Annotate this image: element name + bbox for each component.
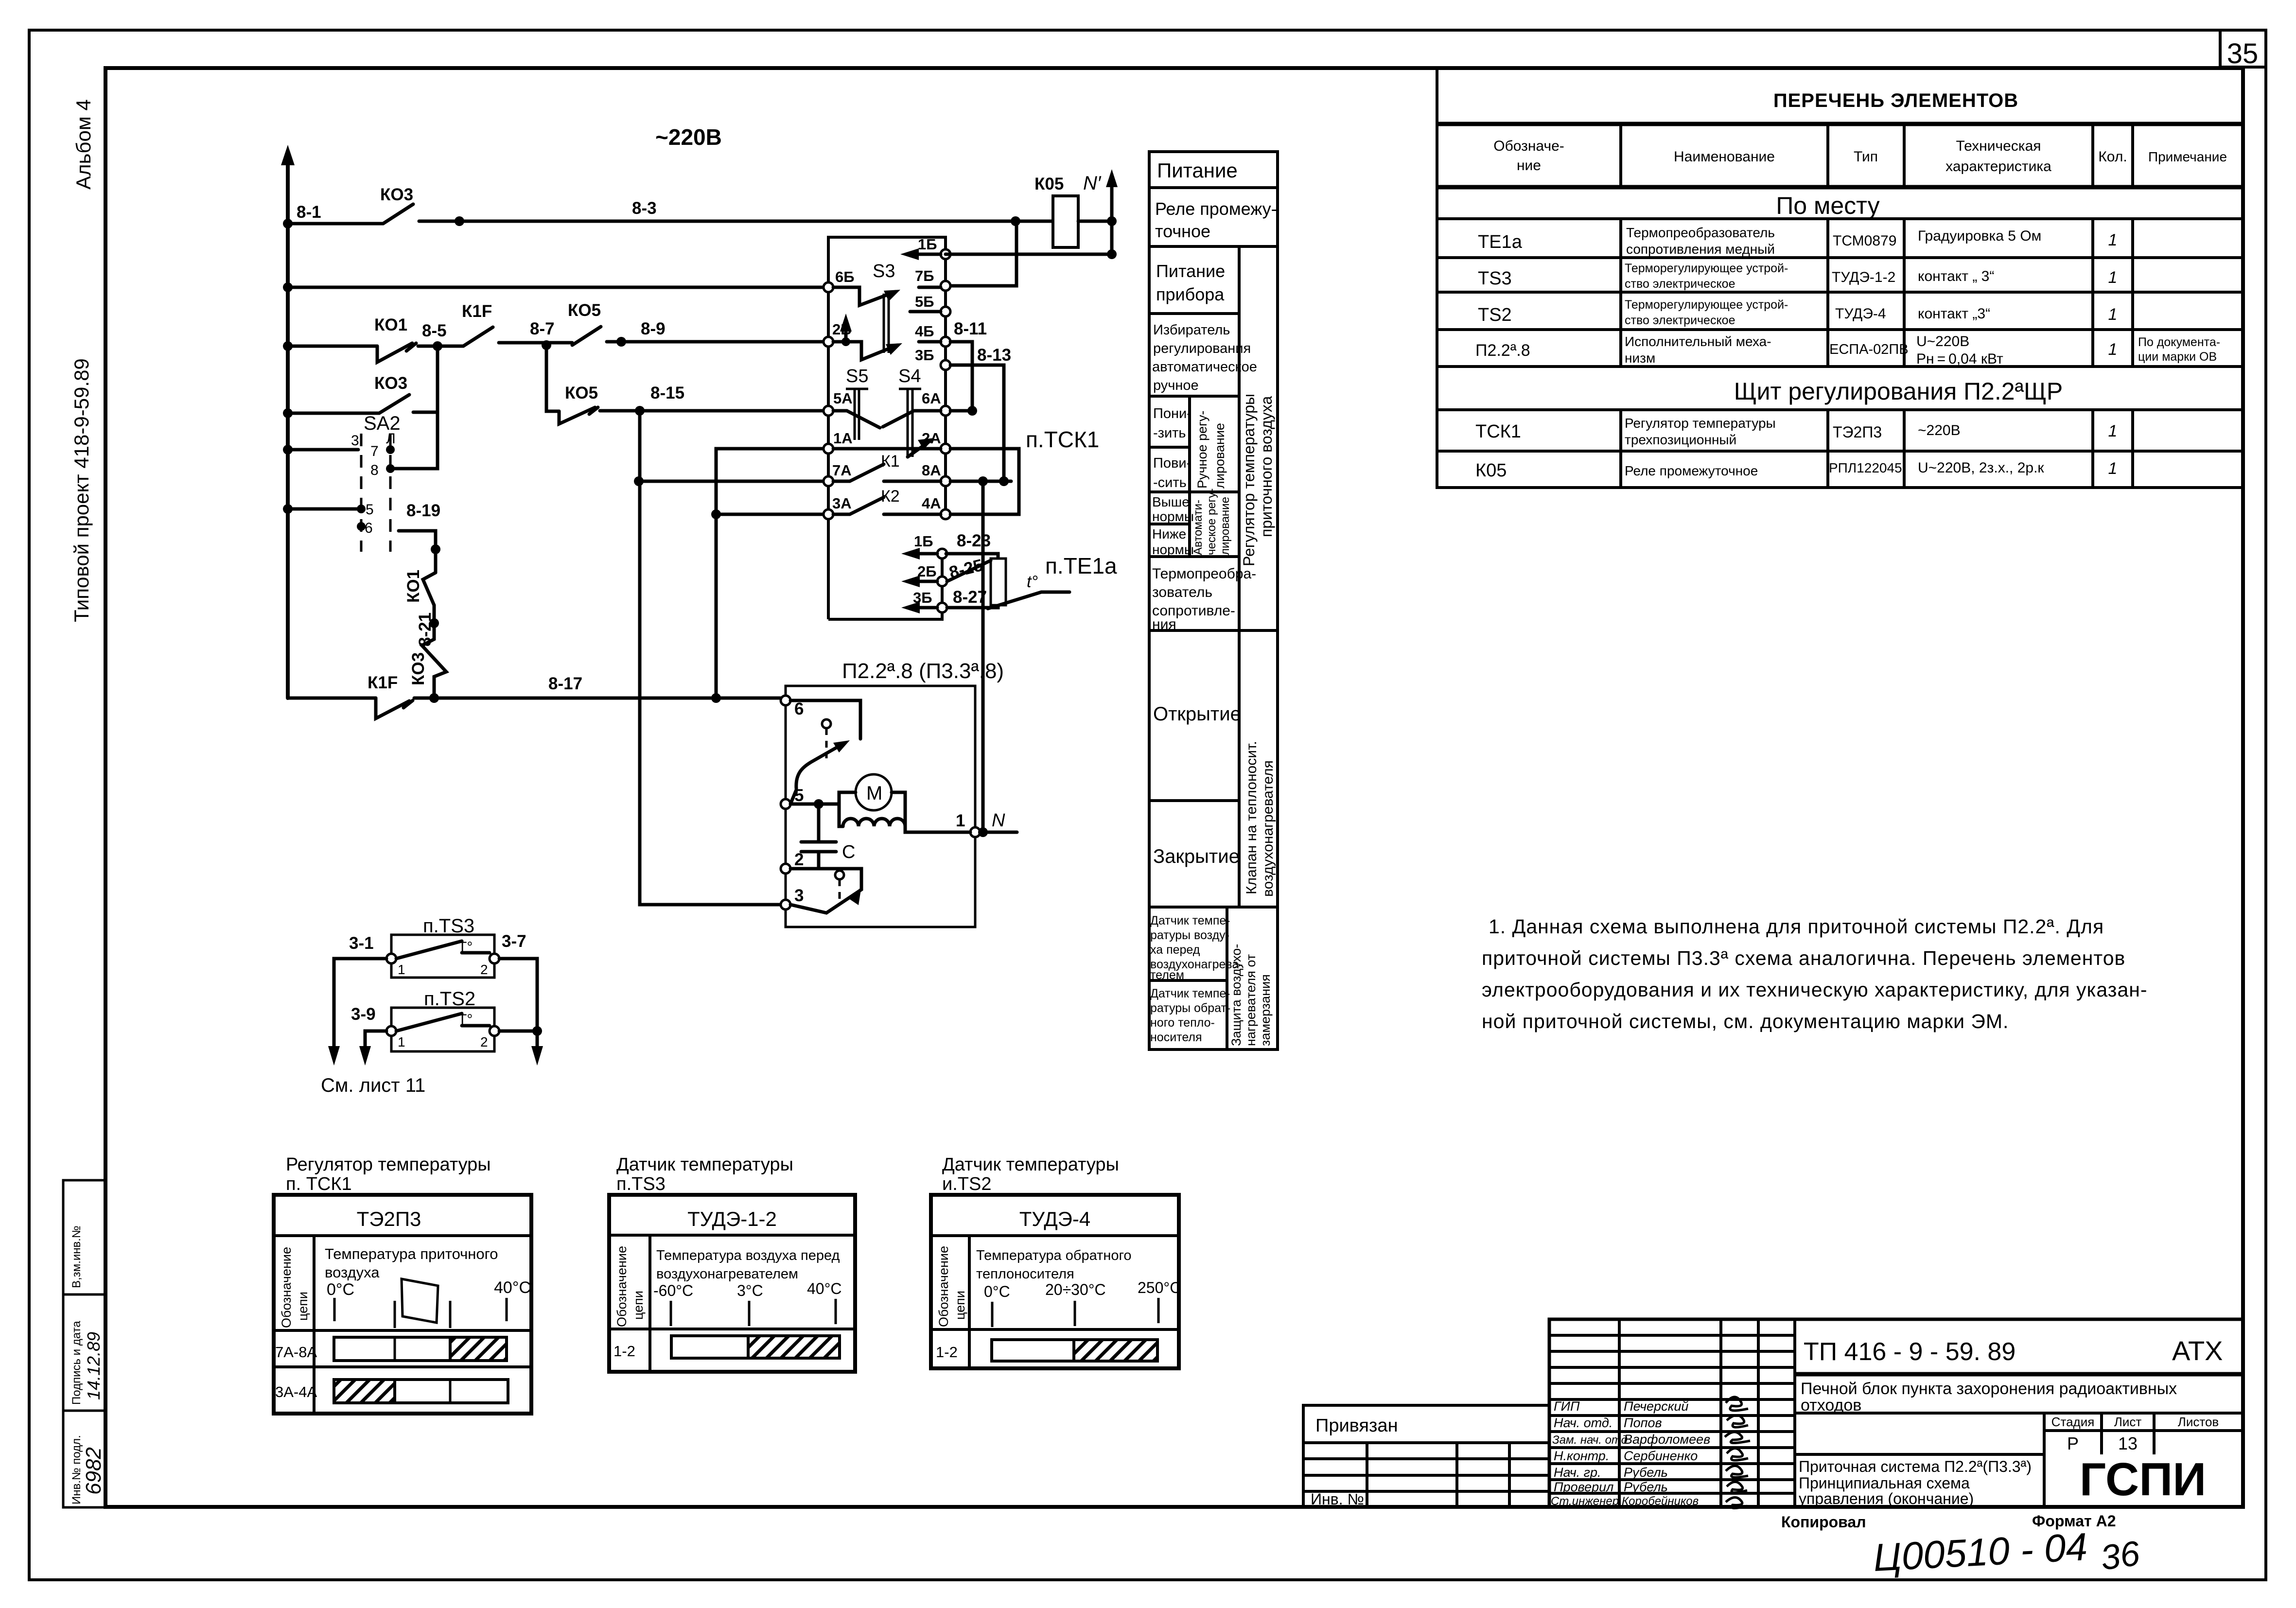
title block stage/sheet	[2051, 1415, 2219, 1453]
function cell Открытие	[1153, 703, 1241, 725]
svg-text:Клапан на теплоносит.: Клапан на теплоносит.	[1244, 741, 1260, 894]
contact К05 aux	[568, 301, 601, 345]
svg-text:ческое регу-: ческое регу-	[1205, 489, 1218, 555]
table title ПЕРЕЧЕНЬ ЭЛЕМЕНТОВ	[1773, 90, 2018, 111]
actuator box	[786, 686, 975, 927]
svg-text:Нач. отд.: Нач. отд.	[1554, 1416, 1612, 1430]
actuator terminal 3	[781, 886, 804, 909]
svg-text:Обозначение: Обозначение	[614, 1246, 629, 1327]
svg-text:носителя: носителя	[1150, 1031, 1202, 1044]
svg-text:Датчик температуры: Датчик температуры	[942, 1154, 1119, 1175]
svg-text:1А: 1А	[833, 430, 853, 447]
section row Щит регулирования	[1734, 378, 2063, 405]
wire 7А link	[639, 480, 826, 483]
switch S3 pole 1	[833, 261, 941, 305]
title block doc number	[1804, 1335, 2223, 1366]
svg-text:5Б: 5Б	[915, 293, 934, 310]
svg-text:К1F: К1F	[368, 673, 398, 692]
wire 7Б to 8-3 corner	[947, 221, 1017, 286]
svg-text:п.TS2: п.TS2	[424, 988, 475, 1010]
svg-text:3-9: 3-9	[351, 1005, 376, 1024]
svg-text:3-1: 3-1	[349, 934, 374, 953]
svg-text:Рубель: Рубель	[1624, 1465, 1668, 1480]
row ТЕ1а	[1478, 225, 2117, 257]
svg-text:ТСМ0879: ТСМ0879	[1833, 233, 1896, 249]
svg-text:контакт „ 3“: контакт „ 3“	[1918, 268, 1994, 284]
switch SA2 (selector, dashed linkage)	[351, 413, 401, 552]
svg-text:7А: 7А	[832, 462, 852, 479]
svg-text:40°С: 40°С	[807, 1280, 842, 1297]
svg-text:ГСПИ: ГСПИ	[2080, 1453, 2206, 1505]
svg-text:ТУДЭ-1-2: ТУДЭ-1-2	[687, 1207, 777, 1230]
svg-text:П2.2ª.8: П2.2ª.8	[1475, 341, 1530, 360]
node N' riser with arrow	[1083, 169, 1118, 259]
svg-text:электрооборудования и их техни: электрооборудования и их техническую хар…	[1482, 979, 2148, 1001]
svg-text:нормы: нормы	[1152, 542, 1194, 557]
header Техническая характеристика	[1945, 138, 2051, 175]
svg-text:4А: 4А	[922, 495, 941, 512]
svg-text:КО3: КО3	[374, 374, 407, 393]
terminal 3Б	[915, 347, 950, 370]
svg-text:Инв.№ подл.: Инв.№ подл.	[70, 1435, 83, 1504]
svg-text:Кол.: Кол.	[2098, 149, 2127, 165]
svg-text:Питание: Питание	[1157, 159, 1238, 182]
svg-text:3Б: 3Б	[913, 589, 932, 606]
svg-text:Листов: Листов	[2178, 1415, 2219, 1429]
svg-text:3: 3	[351, 433, 359, 449]
note paragraph	[1482, 915, 2148, 1032]
svg-text:Варфоломеев: Варфоломеев	[1624, 1432, 1710, 1447]
wire 8-9 to terminal 2Б	[607, 319, 826, 347]
switch S4	[883, 366, 941, 457]
svg-text:Пови-: Пови-	[1153, 455, 1191, 471]
svg-text:ГИП: ГИП	[1554, 1399, 1580, 1414]
svg-text:Т°: Т°	[458, 1012, 473, 1028]
wire rung 7Б link (6Б bus wire)	[283, 282, 826, 292]
svg-text:К05: К05	[1475, 460, 1507, 481]
svg-text:36: 36	[2098, 1534, 2142, 1578]
svg-text:Типовой проект 418-9-59.89: Типовой проект 418-9-59.89	[70, 358, 93, 622]
svg-text:Температура воздуха перед: Температура воздуха перед	[656, 1248, 840, 1263]
actuator winding (inductor)	[839, 804, 970, 832]
svg-text:Щит регулирования П2.2ªЩР: Щит регулирования П2.2ªЩР	[1734, 378, 2063, 405]
svg-text:3: 3	[794, 886, 804, 905]
svg-text:3Б: 3Б	[915, 347, 934, 364]
thermostat block п.TS2	[386, 988, 499, 1051]
wire 3-9	[351, 1005, 386, 1066]
svg-text:8-11: 8-11	[954, 319, 987, 338]
svg-text:ство электрическое: ство электрическое	[1625, 314, 1735, 327]
function cell Питание прибора	[1156, 261, 1225, 304]
svg-text:1: 1	[2108, 340, 2118, 359]
wire 8-15 riser to 7А and actuator pin3	[634, 411, 780, 905]
scale table ТЭ2П3 row 7А-8А	[275, 1337, 507, 1361]
svg-text:ТСК1: ТСК1	[1475, 421, 1521, 442]
header Кол.	[2098, 149, 2127, 165]
svg-text:7: 7	[370, 443, 379, 459]
svg-text:Датчик темпе-: Датчик темпе-	[1150, 987, 1230, 1000]
svg-text:-сить: -сить	[1153, 475, 1187, 490]
contact К03 chain (vertical)	[409, 628, 446, 698]
stub 5Б	[910, 310, 941, 314]
wire coil to N node	[1078, 220, 1112, 223]
svg-text:6: 6	[794, 699, 804, 718]
svg-text:Температура приточного: Температура приточного	[325, 1245, 498, 1262]
svg-text:По документа-: По документа-	[2138, 335, 2220, 349]
svg-text:ТУДЭ-1-2: ТУДЭ-1-2	[1832, 269, 1895, 285]
header Тип	[1854, 149, 1878, 165]
terminal 2А	[922, 430, 950, 454]
svg-text:ручное: ручное	[1153, 378, 1199, 393]
switch S3 pole 2	[833, 342, 941, 360]
svg-text:U~220В: U~220В	[1916, 333, 1969, 350]
svg-text:Приточная система П2.2ª(П3.3: Приточная система П2.2ª(П3.3ª)	[1799, 1458, 2032, 1475]
svg-text:По месту: По месту	[1776, 192, 1879, 219]
svg-text:КО3: КО3	[409, 652, 428, 685]
svg-text:Принципиальная схема: Принципиальная схема	[1799, 1474, 1970, 1492]
svg-text:п.TS3: п.TS3	[616, 1174, 666, 1194]
svg-text:8-5: 8-5	[422, 321, 447, 340]
svg-text:К1: К1	[881, 452, 900, 471]
function cell Датчик температуры воздуха	[1150, 914, 1243, 982]
svg-text:ПЕРЕЧЕНЬ ЭЛЕМЕНТОВ: ПЕРЕЧЕНЬ ЭЛЕМЕНТОВ	[1773, 90, 2018, 111]
attachment block Привязан	[1303, 1405, 1549, 1508]
svg-text:5: 5	[366, 502, 374, 518]
function cell Питание	[1157, 159, 1238, 182]
svg-text:Попов: Попов	[1624, 1416, 1662, 1430]
wire 1Б row with exit arrow	[900, 248, 1112, 260]
svg-text:Рубель: Рубель	[1624, 1480, 1668, 1494]
svg-text:5А: 5А	[833, 390, 853, 407]
actuator П2.2а.8 label	[842, 659, 1004, 683]
svg-text:Обозначе-: Обозначе-	[1493, 138, 1564, 154]
function cell Реле промежуточное	[1155, 199, 1277, 241]
svg-text:S5: S5	[846, 366, 868, 386]
svg-text:20÷30°С: 20÷30°С	[1045, 1281, 1106, 1298]
actuator terminal 6	[781, 696, 804, 718]
svg-text:1: 1	[2108, 305, 2118, 324]
thermometer terminals 1Б 2Б 3Б (п.ТЕ1а)	[901, 531, 991, 613]
svg-text:Обозначение: Обозначение	[936, 1246, 951, 1327]
svg-text:~220B: ~220B	[655, 124, 722, 150]
device block п.ТСК1 frame	[828, 237, 1099, 619]
terminal 5Б	[915, 293, 950, 316]
actuator terminal 2	[781, 850, 804, 874]
svg-text:Регулятор температуры: Регулятор температуры	[286, 1154, 491, 1175]
svg-text:сопротивления медный: сопротивления медный	[1626, 242, 1775, 257]
scale table ТУДЭ-4 scale	[976, 1248, 1181, 1327]
svg-text:Открытие: Открытие	[1153, 703, 1241, 725]
svg-text:8-15: 8-15	[650, 384, 684, 402]
svg-text:Тип: Тип	[1854, 149, 1878, 165]
svg-text:КО5: КО5	[568, 301, 601, 320]
terminal 5А	[824, 390, 853, 416]
svg-text:TS3: TS3	[1478, 268, 1512, 289]
terminal 3А	[824, 495, 852, 519]
contact К01 (NC break contact)	[374, 315, 416, 362]
switch S5	[833, 366, 880, 440]
svg-text:КО3: КО3	[380, 185, 413, 204]
svg-text:Терморегулирующее устрой-: Терморегулирующее устрой-	[1625, 298, 1788, 312]
svg-text:приточной системы П3.3ª схема: приточной системы П3.3ª схема аналогична…	[1482, 947, 2125, 969]
svg-text:воздухонагревателя: воздухонагревателя	[1260, 760, 1276, 897]
svg-text:КО1: КО1	[404, 570, 423, 603]
contact К01 chain (vertical)	[404, 570, 436, 628]
svg-text:ТУДЭ-4: ТУДЭ-4	[1019, 1207, 1090, 1230]
scale table ТУДЭ-4 caption	[942, 1154, 1119, 1194]
function cell Автоматическое регулирование (rotated)	[1192, 489, 1232, 555]
svg-text:8-1: 8-1	[297, 203, 321, 222]
svg-text:1: 1	[2108, 268, 2118, 287]
wire 8А row	[950, 476, 1011, 486]
relay coil К05	[1034, 175, 1078, 247]
header Примечание	[2148, 149, 2227, 164]
svg-text:цепи: цепи	[953, 1291, 967, 1320]
svg-text:N′: N′	[1083, 173, 1102, 194]
svg-text:Р: Р	[2067, 1433, 2079, 1453]
svg-text:0°С: 0°С	[984, 1283, 1010, 1300]
svg-text:2Б: 2Б	[917, 563, 937, 580]
svg-text:6Б: 6Б	[835, 268, 855, 285]
svg-text:Реле промежуточное: Реле промежуточное	[1625, 463, 1758, 478]
svg-text:Термопреобра-: Термопреобра-	[1152, 566, 1256, 582]
svg-text:1. Данная схема выполнена для: 1. Данная схема выполнена для приточной …	[1489, 915, 2104, 938]
actuator motor М	[819, 774, 905, 826]
node 8-15 wire to 5А	[600, 384, 826, 416]
svg-text:М: М	[866, 783, 882, 804]
svg-text:1: 1	[2108, 459, 2118, 478]
svg-text:0°С: 0°С	[327, 1280, 354, 1299]
svg-text:3-7: 3-7	[502, 932, 526, 951]
svg-text:Регулятор температуры: Регулятор температуры	[1625, 416, 1776, 431]
left margin label Альбом 4	[72, 99, 95, 190]
wire 8-17 to actuator pin6	[414, 674, 782, 703]
svg-text:ние: ние	[1517, 157, 1541, 174]
svg-text:К1F: К1F	[462, 302, 492, 321]
left margin stamp boxes	[63, 1180, 105, 1507]
scale table ТУДЭ-1-2 frame	[609, 1195, 855, 1372]
terminal 4А	[922, 495, 950, 519]
svg-text:Альбом 4: Альбом 4	[72, 99, 95, 190]
net label ~220В	[655, 124, 722, 150]
wire rung К03 aux	[283, 408, 379, 418]
node L1 supply bus	[281, 145, 295, 698]
scale table ТУДЭ-1-2 caption	[616, 1154, 793, 1194]
svg-text:ЕСПА-02ПВ: ЕСПА-02ПВ	[1829, 342, 1909, 357]
svg-text:ного тепло-: ного тепло-	[1150, 1016, 1215, 1030]
node 8-21	[416, 612, 439, 647]
svg-text:отходов: отходов	[1801, 1396, 1861, 1415]
svg-text:ратуры возду-: ратуры возду-	[1150, 928, 1229, 942]
svg-text:3А: 3А	[832, 495, 852, 512]
wire 8-5 riser to SA2 pin8	[395, 346, 438, 469]
svg-text:С: С	[842, 842, 855, 862]
svg-text:8-27: 8-27	[953, 588, 987, 607]
element list table frame	[1437, 68, 2243, 488]
svg-text:Термопреобразователь: Термопреобразователь	[1626, 225, 1775, 240]
vertical 8-13	[950, 346, 1011, 486]
contact K1F bottom	[368, 673, 413, 718]
terminal 7Б	[915, 267, 950, 291]
svg-text:нормы: нормы	[1152, 509, 1194, 524]
function cell Датчик температуры обратного	[1150, 987, 1230, 1044]
title block logo ГСПИ	[2080, 1453, 2206, 1505]
actuator limit switch lower	[790, 869, 861, 913]
function cell Термопреобразователь сопротивления	[1152, 566, 1256, 632]
svg-text:250°С: 250°С	[1138, 1279, 1181, 1296]
svg-text:14.12.89: 14.12.89	[84, 1332, 104, 1400]
wire 1А-2А row	[833, 447, 941, 451]
svg-text:ТП 416 - 9 - 59. 89: ТП 416 - 9 - 59. 89	[1804, 1338, 2016, 1366]
svg-text:ратуры обрат-: ратуры обрат-	[1150, 1001, 1230, 1015]
wire 3-1	[328, 934, 386, 1066]
terminal 6Б	[824, 268, 855, 292]
actuator capacitor С	[790, 799, 855, 869]
wire 8А riser to N wire	[981, 481, 985, 832]
svg-text:ТЕ1а: ТЕ1а	[1478, 232, 1523, 252]
svg-text:Закрытие: Закрытие	[1153, 846, 1240, 867]
actuator terminal 1 with N	[956, 810, 1017, 837]
svg-text:1: 1	[2108, 231, 2118, 249]
svg-text:Терморегулирующее устрой-: Терморегулирующее устрой-	[1625, 262, 1788, 275]
title block frame	[1549, 1319, 2243, 1507]
svg-text:4Б: 4Б	[915, 323, 934, 340]
function cell Выше нормы	[1152, 494, 1194, 524]
svg-text:-зить: -зить	[1153, 425, 1186, 441]
node 8-5	[418, 321, 463, 351]
svg-text:S3: S3	[873, 261, 895, 281]
svg-text:Реле промежу-: Реле промежу-	[1155, 199, 1277, 219]
svg-text:цепи: цепи	[631, 1291, 646, 1320]
svg-text:8-17: 8-17	[548, 674, 582, 693]
svg-text:замерзания: замерзания	[1258, 974, 1273, 1046]
svg-text:1: 1	[398, 962, 405, 977]
svg-text:К05: К05	[1034, 175, 1064, 193]
terminal 1А	[824, 430, 853, 454]
svg-text:2: 2	[480, 962, 488, 977]
svg-text:8-13: 8-13	[977, 346, 1011, 365]
section row По месту	[1776, 192, 1879, 219]
svg-text:ния: ния	[1152, 616, 1176, 632]
row П2.2а.8	[1475, 333, 2220, 367]
function cell Закрытие	[1153, 846, 1240, 867]
svg-text:1: 1	[398, 1034, 405, 1049]
svg-text:Сербиненко: Сербиненко	[1624, 1449, 1698, 1463]
svg-text:низм: низм	[1625, 350, 1655, 366]
svg-text:Датчик температуры: Датчик температуры	[616, 1154, 793, 1175]
contact К1	[833, 452, 941, 481]
svg-text:6: 6	[365, 520, 373, 536]
svg-text:Выше: Выше	[1152, 494, 1190, 509]
actuator terminal 5	[781, 786, 804, 809]
svg-text:3°С: 3°С	[737, 1282, 763, 1299]
svg-text:П2.2ª.8 (П3.3ª.8): П2.2ª.8 (П3.3ª.8)	[842, 659, 1004, 683]
function cell Клапан на теплоносителе воздухонагревателя (rotated)	[1244, 741, 1276, 897]
svg-text:АТХ: АТХ	[2172, 1335, 2223, 1366]
scale table ТЭ2П3 row 3А-4А	[275, 1380, 508, 1403]
actuator limit switch upper	[790, 700, 860, 804]
wire rung 3 start	[283, 341, 377, 351]
svg-text:40°С: 40°С	[494, 1278, 531, 1297]
svg-text:1Б: 1Б	[918, 236, 937, 253]
svg-text:Автомати-: Автомати-	[1192, 500, 1205, 555]
svg-text:Рн = 0,04 кВт: Рн = 0,04 кВт	[1916, 351, 2003, 367]
svg-text:Лист: Лист	[2114, 1415, 2142, 1429]
function cell Избиратель регулирования	[1152, 322, 1257, 393]
svg-text:8-23: 8-23	[957, 531, 991, 550]
title block object name	[1801, 1380, 2177, 1415]
svg-text:Техническая: Техническая	[1956, 138, 2041, 154]
svg-text:РПЛ122045: РПЛ122045	[1829, 460, 1902, 475]
terminal 2Б	[824, 321, 852, 347]
svg-text:ной приточной системы, см. д: ной приточной системы, см. документацию …	[1482, 1010, 2009, 1032]
svg-text:Исполнительный меха-: Исполнительный меха-	[1625, 334, 1771, 349]
svg-text:Пони-: Пони-	[1153, 406, 1192, 421]
svg-text:N: N	[992, 810, 1005, 831]
svg-text:лирование: лирование	[1219, 497, 1232, 555]
svg-text:нагревателя от: нагревателя от	[1244, 954, 1258, 1046]
svg-text:Т°: Т°	[458, 939, 473, 955]
svg-text:ТЭ2П3: ТЭ2П3	[357, 1207, 421, 1230]
scale table ТУДЭ-4 row 1-2	[936, 1340, 1157, 1361]
terminal 6А	[922, 390, 950, 416]
svg-text:8-9: 8-9	[641, 319, 666, 338]
wire 1А riser	[711, 449, 826, 698]
svg-text:Температура обратного: Температура обратного	[976, 1248, 1132, 1263]
svg-text:автоматическое: автоматическое	[1152, 359, 1257, 375]
svg-text:цепи: цепи	[296, 1292, 310, 1321]
svg-text:прибора: прибора	[1156, 284, 1225, 304]
svg-text:зователь: зователь	[1152, 584, 1212, 600]
wire 3-7	[499, 932, 543, 1066]
terminal 1Б	[918, 236, 950, 259]
wire TS2 pin2 to riser	[499, 1030, 537, 1033]
svg-text:ТЭ2П3: ТЭ2П3	[1833, 423, 1882, 441]
scale table ТЭ2П3 scale	[325, 1245, 531, 1328]
contact К2	[833, 487, 941, 514]
svg-text:-60°С: -60°С	[653, 1282, 693, 1299]
svg-text:Регулятор температуры: Регулятор температуры	[1240, 394, 1258, 566]
function cell Защита воздухонагревателя (rotated)	[1229, 944, 1273, 1046]
svg-text:Ручное регу-: Ручное регу-	[1195, 411, 1209, 489]
svg-text:t°: t°	[1027, 573, 1038, 591]
thermostat block п.TS3	[386, 915, 499, 978]
svg-text:п. ТСК1: п. ТСК1	[286, 1174, 352, 1194]
row ТСК1	[1475, 416, 2117, 447]
svg-text:2: 2	[480, 1034, 488, 1049]
svg-text:35: 35	[2227, 38, 2259, 70]
handwritten archive number	[1872, 1525, 2142, 1579]
scale table ТУДЭ-1-2 scale	[653, 1248, 842, 1326]
svg-text:В,зм.инв.№: В,зм.инв.№	[70, 1225, 83, 1288]
svg-text:точное: точное	[1155, 221, 1210, 241]
svg-text:Печерский: Печерский	[1624, 1399, 1688, 1414]
svg-text:1-2: 1-2	[613, 1343, 635, 1360]
svg-text:телем: телем	[1150, 968, 1184, 982]
svg-text:приточного воздуха: приточного воздуха	[1258, 396, 1275, 537]
svg-text:Ниже: Ниже	[1152, 526, 1186, 542]
svg-text:U~220В, 2з.х., 2р.к: U~220В, 2з.х., 2р.к	[1918, 460, 2044, 476]
function cell Ручное регулирование (rotated)	[1195, 411, 1227, 489]
row TS3	[1478, 262, 2117, 291]
svg-text:Н.контр.: Н.контр.	[1554, 1449, 1609, 1463]
wire 8-3	[419, 199, 1053, 226]
header Наименование	[1674, 149, 1775, 165]
contact К05 aux2	[559, 384, 598, 424]
svg-text:6982: 6982	[82, 1447, 105, 1495]
svg-text:теплоносителя: теплоносителя	[976, 1266, 1074, 1282]
contact K1F	[462, 302, 493, 346]
